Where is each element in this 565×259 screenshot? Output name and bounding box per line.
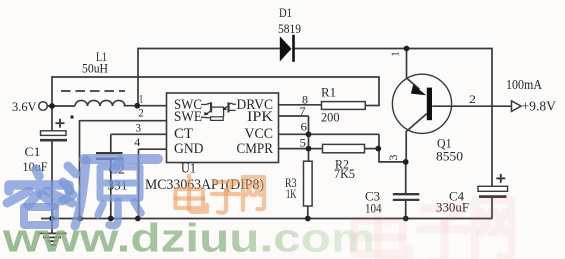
svg-text:2: 2 [469,92,476,106]
wire pin7/pin6/pin5 vertical tie into R3 [308,116,310,162]
svg-text:1: 1 [139,92,144,106]
label 50uH [82,62,108,76]
label 330uF [436,201,469,215]
label L1 [96,50,107,64]
svg-text:2: 2 [138,106,144,120]
svg-text:VCC: VCC [245,126,274,142]
transistor Q1 collector [406,114,427,132]
svg-text:6: 6 [301,119,308,133]
wire pin 8 DRVC to R1 [279,104,322,106]
wire top rail right (D1 cathode to output corner) [294,48,493,50]
transistor Q1 emitter with arrow [407,78,427,95]
wire pin 7 IPK stub [279,115,309,117]
wire vertical R1 right end to second rail [378,77,380,106]
label 8550 [436,148,463,163]
label 104 [365,201,382,215]
wire vertical from top rail to node 1 [137,48,139,106]
resistor R2 [323,144,365,152]
label 5819 [278,21,301,36]
wire pin 3 down to C2 [110,134,112,153]
svg-text:1: 1 [389,51,401,57]
U1 internal switch sketch [201,102,236,120]
wire C1 to ground rail [51,141,53,219]
node collector junction [403,159,409,165]
label CMPR [237,141,274,157]
wire C4 to ground rail [491,198,493,219]
watermark faint pink 电子网 [355,197,512,259]
wire right vertical output bus [491,49,493,187]
Q1 pin 2 label [469,92,476,106]
svg-text:7: 7 [300,104,306,118]
svg-text:8550: 8550 [436,148,463,163]
svg-text:R1: R1 [321,84,336,99]
svg-text:7K5: 7K5 [334,166,355,181]
pin 3 label [136,120,142,134]
svg-text:3.6V: 3.6V [12,99,37,114]
node ground C3 [403,216,409,222]
svg-text:+9.8V: +9.8V [522,99,557,114]
ground [39,219,67,246]
label SWE [174,109,202,125]
node ground R3 [305,216,311,222]
svg-text:3: 3 [136,120,142,134]
wire C2 to ground rail [110,159,112,219]
label R3 [285,175,297,190]
capacitor C1 [40,131,67,140]
label R1 [321,84,336,99]
svg-text:100mA: 100mA [506,77,542,92]
Q1 pin 3 label rotated [386,155,400,161]
pin 7 label [300,104,306,118]
node 1 inductor / SWC junction [134,103,140,109]
wire pin 4 down to ground [138,149,140,218]
svg-text:5819: 5819 [278,21,301,36]
pin 1 label [139,92,144,106]
label 3.6V [12,99,37,114]
wire pin 2 SWE row [80,120,167,122]
wire pin 5 CMPR to R2 [279,148,323,150]
label C2 [109,162,126,177]
svg-text:3: 3 [386,155,400,161]
op-amp U1 MC33063 box [167,93,279,163]
wire R2 right lead [365,148,380,150]
label VCC [245,126,274,142]
terminal 3.6V input [39,102,48,111]
svg-text:GND: GND [174,141,204,157]
wire pin 2 down to ground [79,120,81,219]
inductor L1 core dashed line [61,90,125,92]
wire pin 6 drop to feedback node [378,134,380,148]
pin 6 label [301,119,308,133]
wire pin 3 CT row [111,133,167,135]
label +9.8V [522,99,557,114]
wire top rail left (D1 anode feed) [138,48,280,50]
resistor R3 [304,161,313,206]
ground rail [41,218,493,220]
watermark blue 容源 [7,159,158,226]
transistor Q1 circle [392,74,451,133]
inductor L1 [75,100,125,106]
Q1 pin 1 label rotated [389,51,401,57]
C4 polarity + [496,174,505,183]
svg-text:200: 200 [321,109,340,124]
svg-text:C1: C1 [25,144,41,159]
label SWC [174,97,202,113]
wire R3 bottom to ground [307,206,309,219]
wire second rail (3.6V feed to R1) [51,76,380,78]
label CT [174,126,193,142]
svg-text:50uH: 50uH [82,62,108,76]
label 200 [321,109,340,124]
node ground pin2 [77,216,83,222]
wire R1 right lead [365,105,380,107]
svg-text:CMPR: CMPR [237,141,274,157]
label MC33063AP1(DIP8) [145,177,264,193]
label C4 [449,188,464,203]
label 331 [108,177,128,192]
node D1 cathode / emitter junction [404,46,410,52]
label D1 [279,5,292,20]
wire pin 6 VCC row [279,133,380,135]
inductor polarity dot [71,116,74,119]
svg-text:U1: U1 [181,160,196,175]
output arrow [512,101,522,111]
wire feedback node jog to collector node [379,149,406,162]
label DRVC [237,97,274,113]
node ground pin4 [135,216,141,222]
label GND [174,141,204,157]
label IPK [247,109,273,125]
svg-text:IPK: IPK [247,109,273,125]
node ground C1 [49,216,55,222]
watermark orange 电子网 [176,176,265,213]
label 1K [286,187,297,201]
label C3 [365,188,380,203]
svg-text:SWE: SWE [174,109,202,125]
wire 3.6V node up to second rail [51,77,53,106]
pin 8 label [302,92,308,106]
svg-text:www.dziuu.com: www.dziuu.com [2,217,375,259]
label Q1 [437,135,452,150]
pin 2 label [138,106,144,120]
wire Q1 emitter drop from top rail [406,49,408,80]
capacitor C4 [478,186,508,196]
wire 3.6V node down to C1 [51,106,53,131]
svg-text:5: 5 [300,135,307,149]
wire 3.6V input row [47,105,75,107]
capacitor C2 [96,153,123,159]
label 100mA [506,77,542,92]
node ground C2 [108,216,114,222]
svg-text:1K: 1K [286,187,297,201]
wire node1 to SWC pin 1 [124,105,167,107]
label C1 [25,144,41,159]
node feedback junction right of R2 [375,146,381,152]
transistor Q1 bar [427,88,432,121]
watermark green www.dziuu.com [2,217,375,259]
node 3.6V input junction [49,103,55,109]
pin 4 label [134,135,140,149]
svg-text:D1: D1 [279,5,292,20]
wire collector node down to C3 [405,162,407,194]
wire pin 4 GND row [139,148,167,150]
C1 polarity + [56,119,65,128]
label R2 [335,156,349,171]
wire C3 to ground rail [405,200,407,219]
node pin6 tie on R3 string [306,131,312,137]
svg-text:4: 4 [134,135,140,149]
label U1 [181,160,196,175]
label 10uF [23,159,48,174]
wire Q1 base to output bus and arrow [432,105,511,107]
wire Q1 collector drop [405,131,407,162]
label 7K5 [334,166,355,181]
node pin5 tie on R3 string [306,146,312,152]
pin 5 label [300,135,307,149]
svg-text:CT: CT [174,126,193,142]
diode D1 [280,35,295,62]
resistor R1 [322,102,366,110]
capacitor C3 [393,194,420,200]
